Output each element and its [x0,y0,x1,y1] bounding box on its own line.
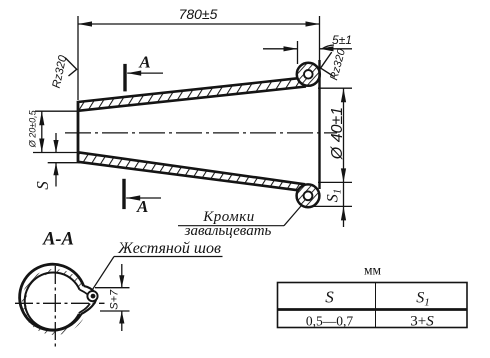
surface mark Rz320 left [51,54,77,90]
section line A top [125,53,163,92]
cone bottom wall [78,152,305,190]
svg-text:S: S [325,288,334,307]
svg-text:0,5—0,7: 0,5—0,7 [306,314,354,329]
cone top wall [78,78,306,111]
section line A bottom [124,179,161,216]
cone right edge [318,60,320,189]
rolled edge bottom [297,184,320,207]
cone left edge [77,101,80,163]
svg-text:780±5: 780±5 [179,6,218,22]
leader Жестяной шов [93,240,223,290]
rolled edge top [297,63,320,86]
svg-text:Ø 40±1: Ø 40±1 [329,107,346,160]
svg-text:5±1: 5±1 [332,33,352,47]
dimension Ø20±0,5 [28,109,81,152]
section centerline vertical [54,266,56,350]
section ring hatch [18,265,92,339]
svg-text:3+S: 3+S [410,314,434,330]
seam gap blank [80,287,100,314]
dimension 780±5 [78,6,320,100]
centerline main [65,132,337,134]
dimension Ø40±1 and S1 [311,88,352,227]
surface mark Rz320 right [321,47,349,82]
svg-text:Жестяной шов: Жестяной шов [117,240,221,257]
tin seam [79,286,98,314]
svg-text:S+7: S+7 [109,289,121,310]
leader Кромки завальцевать [178,206,301,239]
dimension S+7 [95,264,130,331]
svg-text:мм: мм [364,263,382,278]
svg-text:S: S [33,181,52,190]
section centerline horizontal [15,302,105,304]
dimension S left [33,133,80,190]
table [278,283,468,330]
svg-text:A: A [136,197,148,216]
svg-text:A-A: A-A [42,230,74,250]
section ring outline [20,264,84,330]
dimension 5±1 [263,33,352,64]
svg-text:Ø 20±0,5: Ø 20±0,5 [28,109,38,148]
svg-text:завальцевать: завальцевать [184,223,272,239]
svg-text:A: A [138,53,150,72]
